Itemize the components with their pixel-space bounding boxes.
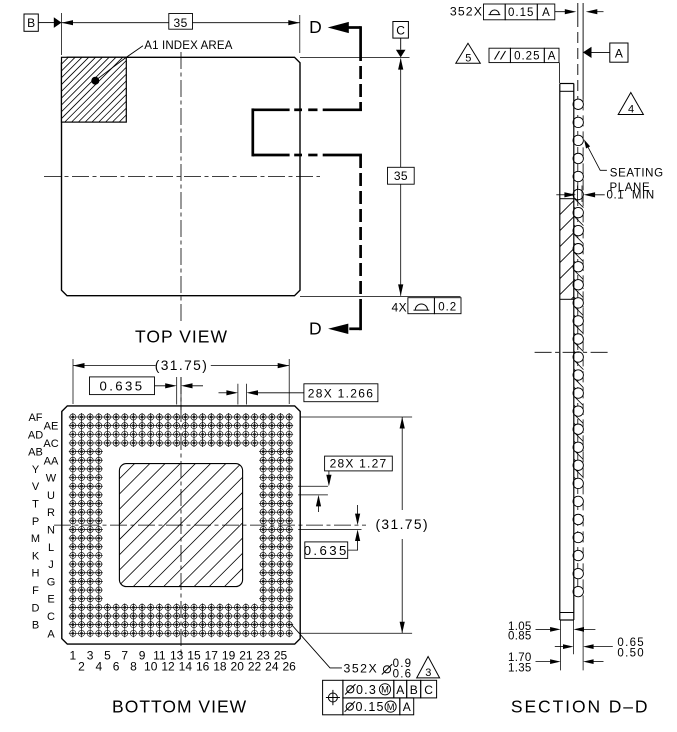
svg-text:0.85: 0.85 — [508, 631, 532, 643]
svg-text:1: 1 — [70, 648, 77, 662]
svg-text:(31.75): (31.75) — [375, 517, 429, 532]
svg-text:C: C — [47, 611, 55, 623]
svg-text:35: 35 — [394, 169, 408, 183]
svg-text:0.1 MIN: 0.1 MIN — [607, 190, 655, 202]
svg-text:0.6: 0.6 — [393, 669, 413, 681]
svg-text:W: W — [46, 473, 57, 485]
svg-text:A: A — [403, 700, 411, 714]
svg-text:(31.75): (31.75) — [155, 358, 209, 373]
svg-text:A1 INDEX AREA: A1 INDEX AREA — [144, 40, 232, 52]
svg-text:U: U — [47, 490, 55, 502]
svg-text:0.15: 0.15 — [508, 7, 534, 19]
svg-text:8: 8 — [130, 659, 137, 673]
svg-text:3: 3 — [87, 648, 94, 662]
svg-text:J: J — [48, 559, 54, 571]
svg-text:AF: AF — [28, 412, 42, 424]
svg-text:1.35: 1.35 — [508, 662, 532, 674]
svg-text:T: T — [32, 499, 39, 511]
svg-text:R: R — [47, 507, 55, 519]
svg-text:5: 5 — [104, 648, 111, 662]
svg-text:26: 26 — [282, 659, 296, 673]
svg-text:7: 7 — [121, 648, 128, 662]
svg-text:A: A — [47, 628, 55, 640]
svg-text:TOP VIEW: TOP VIEW — [135, 326, 228, 346]
svg-text:G: G — [47, 576, 56, 588]
svg-text:M: M — [31, 533, 40, 545]
svg-text:B: B — [410, 683, 418, 697]
svg-text:0.25: 0.25 — [514, 51, 540, 63]
svg-text:F: F — [32, 585, 39, 597]
svg-text:N: N — [47, 524, 55, 536]
svg-text:AB: AB — [28, 447, 43, 459]
svg-text:0.635: 0.635 — [304, 543, 349, 558]
svg-text:M: M — [381, 685, 389, 695]
svg-text:352X: 352X — [450, 5, 483, 19]
svg-text:2: 2 — [78, 659, 85, 673]
svg-text:0.15: 0.15 — [356, 700, 385, 714]
svg-text:352X: 352X — [344, 661, 379, 675]
svg-text:M: M — [387, 702, 395, 712]
svg-text:A: A — [542, 7, 550, 19]
svg-text:SEATING: SEATING — [610, 167, 664, 179]
svg-text:0.50: 0.50 — [617, 647, 645, 659]
svg-text:E: E — [47, 594, 54, 606]
svg-text:A: A — [396, 683, 404, 697]
svg-text:K: K — [32, 550, 40, 562]
svg-text:AD: AD — [28, 429, 43, 441]
svg-text:28X 1.27: 28X 1.27 — [330, 456, 388, 470]
svg-text:28X 1.266: 28X 1.266 — [308, 386, 374, 400]
svg-text:6: 6 — [113, 659, 120, 673]
svg-text:L: L — [48, 542, 54, 554]
svg-text:4: 4 — [628, 103, 634, 115]
svg-text:4: 4 — [95, 659, 102, 673]
svg-text:SECTION D–D: SECTION D–D — [511, 697, 650, 717]
svg-text:AC: AC — [43, 438, 58, 450]
svg-text:B: B — [32, 620, 39, 632]
svg-text:A: A — [615, 47, 623, 61]
svg-text:AE: AE — [44, 421, 59, 433]
svg-text:0.3: 0.3 — [356, 683, 377, 697]
svg-text:C: C — [424, 683, 433, 697]
svg-text:AA: AA — [44, 455, 59, 467]
svg-text:V: V — [32, 481, 40, 493]
svg-text:5: 5 — [465, 53, 471, 65]
svg-text:C: C — [396, 24, 405, 38]
svg-text:Y: Y — [32, 464, 40, 476]
svg-text:35: 35 — [174, 16, 188, 30]
svg-text:H: H — [32, 568, 40, 580]
svg-text:BOTTOM VIEW: BOTTOM VIEW — [112, 697, 247, 717]
svg-text:D: D — [32, 602, 40, 614]
svg-text:D: D — [309, 319, 322, 339]
svg-text:0.2: 0.2 — [438, 301, 457, 313]
svg-text:P: P — [32, 516, 39, 528]
svg-text:B: B — [27, 16, 35, 30]
svg-text:A: A — [548, 51, 556, 63]
svg-text:4X: 4X — [392, 301, 407, 315]
svg-text:3: 3 — [425, 667, 431, 679]
svg-text:0.635: 0.635 — [99, 379, 144, 394]
svg-text:D: D — [309, 17, 322, 37]
